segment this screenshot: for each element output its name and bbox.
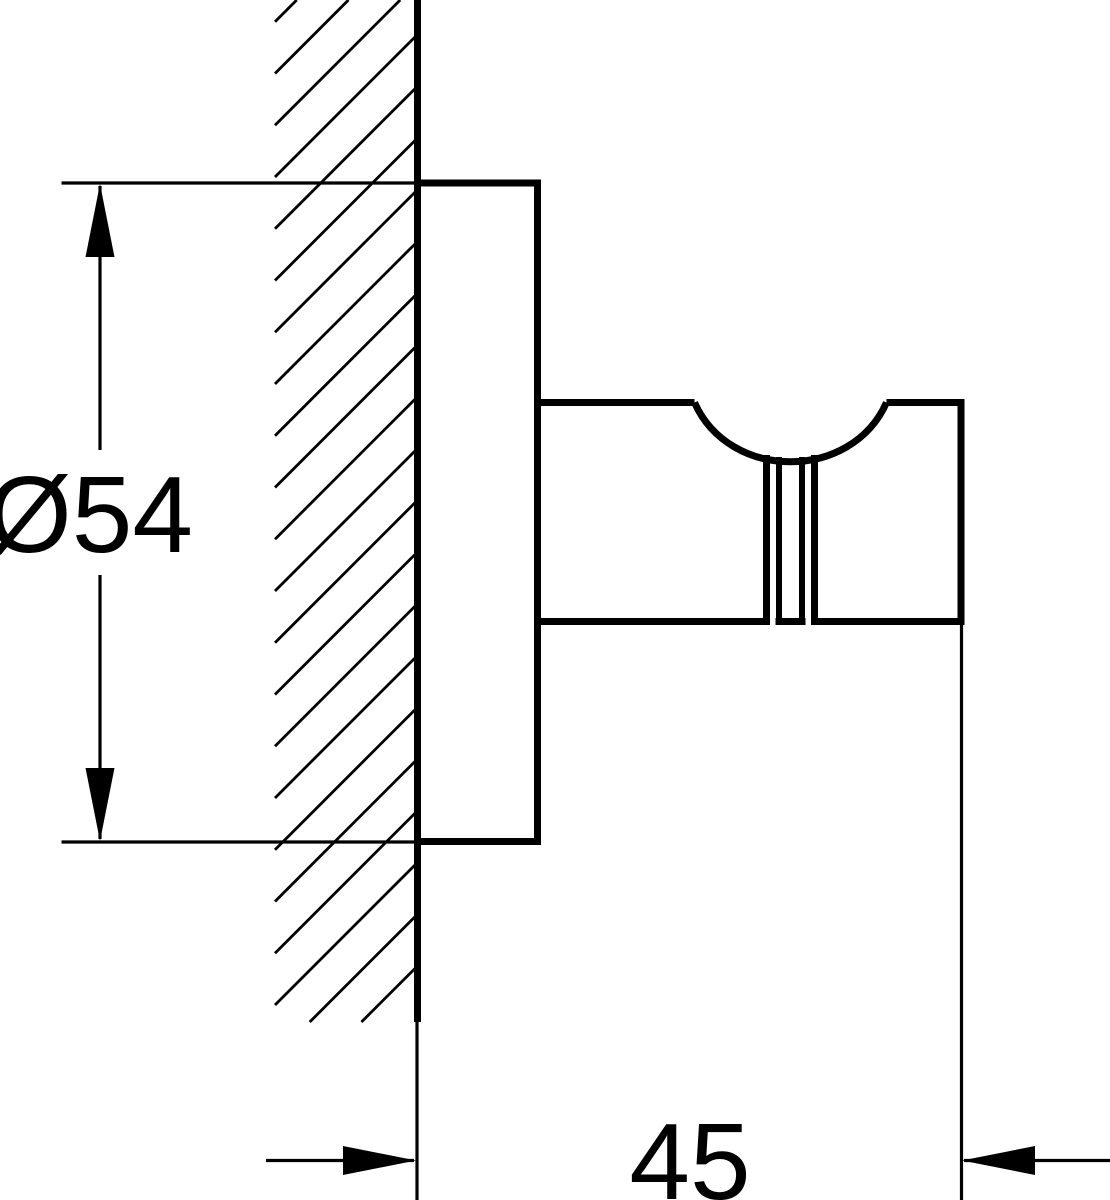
hatch line 16 xyxy=(275,655,418,798)
extension line top (diameter upper) xyxy=(62,181,538,184)
extension line bottom (diameter lower) xyxy=(62,840,538,843)
hatch line 4 xyxy=(275,34,418,177)
hatch line 13 xyxy=(275,500,418,643)
groove wall line 2 xyxy=(776,457,782,625)
hook notch arc xyxy=(695,403,887,462)
arrowhead left (45 right) xyxy=(962,1146,1035,1175)
hatch line 15 xyxy=(275,604,418,747)
hatch line 9 xyxy=(275,293,418,436)
hatch line 7 xyxy=(275,190,418,333)
wall hatching xyxy=(275,0,418,1022)
hatch line 17 xyxy=(275,707,418,850)
hook body top edge right segment xyxy=(887,399,962,406)
hatch line 19 xyxy=(275,811,418,954)
hatch line 20 xyxy=(275,862,418,1005)
hook body bottom edge left segment xyxy=(538,618,771,625)
arrowhead right (45 left) xyxy=(343,1146,416,1175)
dimension line Ø54 lower segment xyxy=(98,575,101,839)
hatch line 8 xyxy=(275,241,418,384)
svg-text:45: 45 xyxy=(629,1101,750,1200)
dimension line 45 right segment xyxy=(964,1159,1110,1162)
hook edge extension line below xyxy=(960,625,963,1200)
hatch line 14 xyxy=(275,552,418,695)
dimension line Ø54 upper segment xyxy=(98,186,101,450)
hook body bottom edge right segment xyxy=(811,618,965,625)
groove wall line 3 xyxy=(799,457,805,625)
hatch line 5 xyxy=(275,86,418,229)
hatch line 12 xyxy=(275,448,418,591)
hatch line 21 xyxy=(310,914,418,1022)
svg-text:Ø54: Ø54 xyxy=(0,454,193,576)
hatch line 2 xyxy=(275,0,348,73)
hook body right edge xyxy=(958,399,965,625)
hatch line 11 xyxy=(275,397,418,540)
hook body top edge left segment xyxy=(538,399,695,406)
arrowhead up (Ø54 top) xyxy=(86,184,115,257)
arrowhead down (Ø54 bottom) xyxy=(86,768,115,841)
hatch line 22 xyxy=(361,966,417,1022)
wall xyxy=(414,0,421,1022)
hatch line 3 xyxy=(275,0,400,125)
dimension line 45 left segment xyxy=(266,1159,414,1162)
groove wall line 1 xyxy=(763,455,770,625)
escutcheon plate outline xyxy=(414,183,538,842)
hatch line 18 xyxy=(275,759,418,902)
groove wall line 4 xyxy=(811,455,818,625)
hatch line 10 xyxy=(275,345,418,488)
hatch line 6 xyxy=(275,138,418,281)
hatch line 1 xyxy=(275,0,297,22)
wall extension line below xyxy=(415,1022,418,1200)
hook body bottom edge middle segment xyxy=(776,618,806,625)
